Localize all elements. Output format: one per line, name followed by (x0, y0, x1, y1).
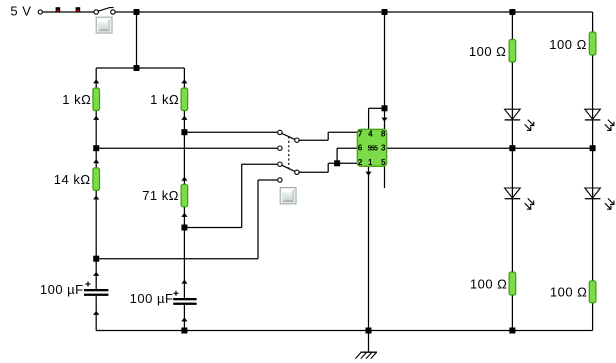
svg-text:14 kΩ: 14 kΩ (54, 172, 91, 187)
svg-text:555: 555 (368, 146, 378, 153)
svg-text:1 kΩ: 1 kΩ (150, 92, 179, 107)
svg-text:5 V: 5 V (10, 4, 31, 19)
svg-text:100 µF: 100 µF (40, 282, 84, 297)
svg-text:8: 8 (381, 129, 386, 138)
svg-text:100 Ω: 100 Ω (549, 37, 587, 52)
svg-text:1: 1 (368, 158, 373, 167)
svg-text:100 Ω: 100 Ω (470, 277, 508, 292)
svg-text:4: 4 (368, 129, 373, 138)
svg-text:100 µF: 100 µF (130, 291, 174, 306)
svg-text:6: 6 (358, 144, 363, 153)
svg-text:1 kΩ: 1 kΩ (62, 92, 91, 107)
svg-text:100 Ω: 100 Ω (550, 284, 588, 299)
svg-text:2: 2 (358, 158, 363, 167)
svg-text:7: 7 (358, 129, 363, 138)
svg-text:3: 3 (381, 144, 386, 153)
svg-text:100 Ω: 100 Ω (469, 44, 507, 59)
svg-text:5: 5 (381, 158, 386, 167)
svg-text:71 kΩ: 71 kΩ (142, 188, 179, 203)
